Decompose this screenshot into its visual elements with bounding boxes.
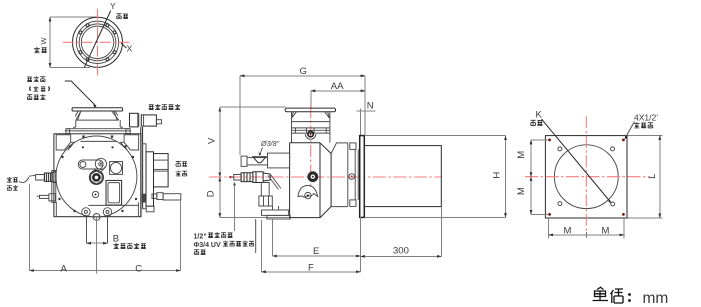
- label 自径 (diameter): [116, 14, 121, 19]
- red center line vertical: [97, 9, 99, 77]
- neck band lines: [292, 122, 330, 134]
- band bolt ticks: [296, 128, 327, 133]
- ignition transformer boxes: [130, 113, 138, 127]
- neck gusset braces: [78, 111, 118, 120]
- svg-text:M: M: [564, 225, 572, 236]
- svg-text:L: L: [647, 174, 658, 179]
- X leader line: [121, 43, 127, 48]
- dimension AA line: [311, 90, 365, 92]
- body bolt dots: [58, 135, 137, 212]
- red electrode tip dot: [229, 176, 231, 178]
- dimension N line with ticks: [357, 110, 376, 112]
- V top extension: [220, 106, 286, 108]
- arrow to valve: [260, 148, 263, 155]
- dimension line C: [97, 270, 181, 272]
- fan shaped damper handle: [298, 186, 318, 198]
- red center line horizontal: [209, 176, 441, 178]
- L top extension: [628, 135, 663, 137]
- motor cylinder: [364, 146, 441, 207]
- E left extension: [271, 220, 273, 257]
- svg-text:M: M: [516, 151, 527, 159]
- dimension line A: [29, 270, 96, 272]
- svg-text:V: V: [206, 137, 217, 144]
- top flange plate: [72, 108, 123, 111]
- K diameter diagonal: [542, 119, 611, 202]
- fullwidth colon: [628, 293, 631, 302]
- probe leader line: [234, 184, 236, 232]
- label 单位: [593, 287, 624, 303]
- svg-text:Ø3/8”: Ø3/8”: [260, 139, 280, 148]
- shoulder tabs: [66, 129, 70, 134]
- top-right corner bracket: [121, 135, 139, 151]
- support leg line: [255, 219, 257, 253]
- bracket base plates: [262, 210, 289, 215]
- label 伺服 电机: [176, 162, 181, 167]
- left foot: [55, 202, 57, 217]
- svg-text:AA: AA: [331, 81, 344, 92]
- bottom split tick: [585, 232, 587, 238]
- AA left extension: [310, 91, 312, 108]
- bottom M extensions: [548, 218, 550, 239]
- neck lower sides: [74, 120, 123, 129]
- corner hole dots: [548, 139, 625, 216]
- hex nut assembly: [89, 170, 103, 184]
- svg-text:M: M: [516, 187, 527, 195]
- dimension A extension left: [28, 184, 30, 271]
- sight glass: [305, 134, 315, 139]
- svg-text:Y: Y: [110, 1, 116, 11]
- ignition electrode side: [229, 175, 241, 181]
- body block: [290, 143, 332, 218]
- lower probe: [37, 194, 56, 201]
- label 自径: [530, 120, 535, 125]
- label 安装孔: [634, 122, 640, 128]
- pipe center extension: [96, 217, 98, 271]
- label 主燃气进口: [114, 243, 119, 249]
- servo shaft bar: [163, 194, 181, 200]
- bottom M dimension line: [549, 234, 587, 236]
- 300 right extension: [440, 207, 442, 257]
- electrode L bracket: [259, 174, 281, 206]
- dimension F line: [262, 271, 361, 273]
- label 进气口: [27, 95, 32, 100]
- dimension G line: [240, 75, 365, 77]
- bottom chord plate line: [88, 204, 138, 206]
- side flange plate: [285, 108, 335, 112]
- M bottom extension: [531, 213, 548, 215]
- neck sides: [292, 112, 330, 143]
- mounting hole leader: [626, 122, 635, 138]
- square box with circle: [110, 162, 123, 175]
- top-left corner bracket: [56, 135, 74, 151]
- flange gussets: [292, 112, 330, 119]
- svg-text:M: M: [602, 225, 610, 236]
- label 点火变压器: [149, 105, 154, 110]
- dimension 300 line: [360, 255, 441, 257]
- dimension V/D vertical line: [219, 107, 221, 177]
- adapter plate right: [331, 143, 348, 207]
- D bottom extension: [220, 216, 290, 218]
- M top extension: [531, 139, 548, 141]
- svg-text:C: C: [135, 264, 142, 275]
- svg-text:Φ3/4 UV: Φ3/4 UV: [194, 242, 221, 249]
- flange inner circle: [81, 26, 113, 58]
- electrode label leader: [19, 177, 29, 183]
- body shoulder line: [66, 128, 130, 130]
- dimension W outer-diameter bracket: [49, 17, 51, 68]
- right foot: [137, 202, 139, 216]
- electrode mounting plate: [52, 171, 56, 203]
- H extension bottom: [365, 216, 506, 218]
- coupling circle: [349, 174, 355, 180]
- dimension B: [87, 242, 108, 244]
- flange outer circle: [73, 17, 123, 67]
- flange ring circle 3: [79, 24, 116, 61]
- label 外径: [34, 47, 40, 53]
- label 检测: [194, 250, 199, 255]
- neck mid ledge: [76, 119, 119, 121]
- main circle: [56, 136, 137, 217]
- svg-text:D: D: [206, 190, 217, 197]
- bottom bolt circles: [82, 208, 90, 216]
- small circle below nut: [92, 191, 98, 197]
- G left extension: [239, 76, 241, 155]
- svg-text:300: 300: [393, 245, 409, 256]
- neck trapezoid sides: [75, 111, 119, 120]
- motor mounting flange (thick): [360, 136, 365, 218]
- svg-text:K: K: [536, 110, 543, 121]
- label 助燃风: [27, 77, 32, 82]
- G/AA right extension: [364, 76, 366, 135]
- flange ring circle 2: [76, 21, 118, 63]
- servo output blocks: [152, 194, 157, 199]
- svg-text:mm: mm: [643, 290, 669, 307]
- L bottom extension: [628, 217, 663, 219]
- svg-text:H: H: [492, 172, 503, 179]
- svg-text:4X1/2’: 4X1/2’: [634, 113, 658, 123]
- dimension C extension right: [180, 200, 182, 271]
- H extension top: [365, 135, 506, 137]
- gas valve assembly left: [241, 156, 247, 166]
- body outline: [54, 134, 141, 217]
- gas inlet pipe: [87, 217, 108, 244]
- F left extension: [261, 220, 263, 272]
- servo flange plates: [143, 144, 146, 209]
- svg-text:X: X: [127, 44, 133, 54]
- dimension H line: [505, 136, 507, 218]
- svg-text:B: B: [113, 234, 119, 245]
- E/300 shared extension: [359, 217, 361, 272]
- bolt hole ticks on bolt circle: [79, 24, 116, 61]
- leader from air inlet label to flange: [65, 81, 96, 106]
- transformer bracket dark line: [141, 127, 143, 217]
- body top line: [65, 130, 131, 132]
- svg-text:G: G: [300, 66, 307, 77]
- central circle: [554, 145, 618, 209]
- svg-text:W: W: [39, 37, 48, 45]
- belt lines pulley to nut: [92, 167, 105, 173]
- inner top plate line: [81, 140, 117, 142]
- ignition electrode upper: [29, 175, 44, 181]
- label 点火 电极: [7, 177, 12, 182]
- dim split tick: [96, 268, 98, 274]
- red center line vertical: [310, 106, 312, 187]
- plate on body left: [268, 153, 290, 168]
- red center line horizontal: [525, 176, 650, 178]
- tall rectangle door: [106, 180, 122, 205]
- svg-text:N: N: [367, 101, 374, 112]
- red center line horizontal: [63, 41, 132, 43]
- svg-text:F: F: [308, 262, 314, 273]
- dimension E line: [272, 255, 360, 257]
- svg-text:A: A: [61, 264, 68, 275]
- hex bolt on center: [307, 171, 318, 182]
- svg-text:1/2”: 1/2”: [194, 234, 207, 241]
- left bar with pivot: [78, 160, 103, 169]
- pulley circles: [95, 158, 106, 169]
- servo motor body: [154, 154, 169, 187]
- small pilot holes: [558, 147, 562, 151]
- svg-text:E: E: [313, 246, 319, 257]
- dimension L line: [659, 136, 661, 218]
- mounting plate: [545, 136, 627, 218]
- diameter diagonal line: [84, 11, 111, 68]
- red center line vertical: [585, 116, 587, 236]
- label （空气）: [30, 87, 50, 91]
- left M dimension line: [530, 140, 532, 177]
